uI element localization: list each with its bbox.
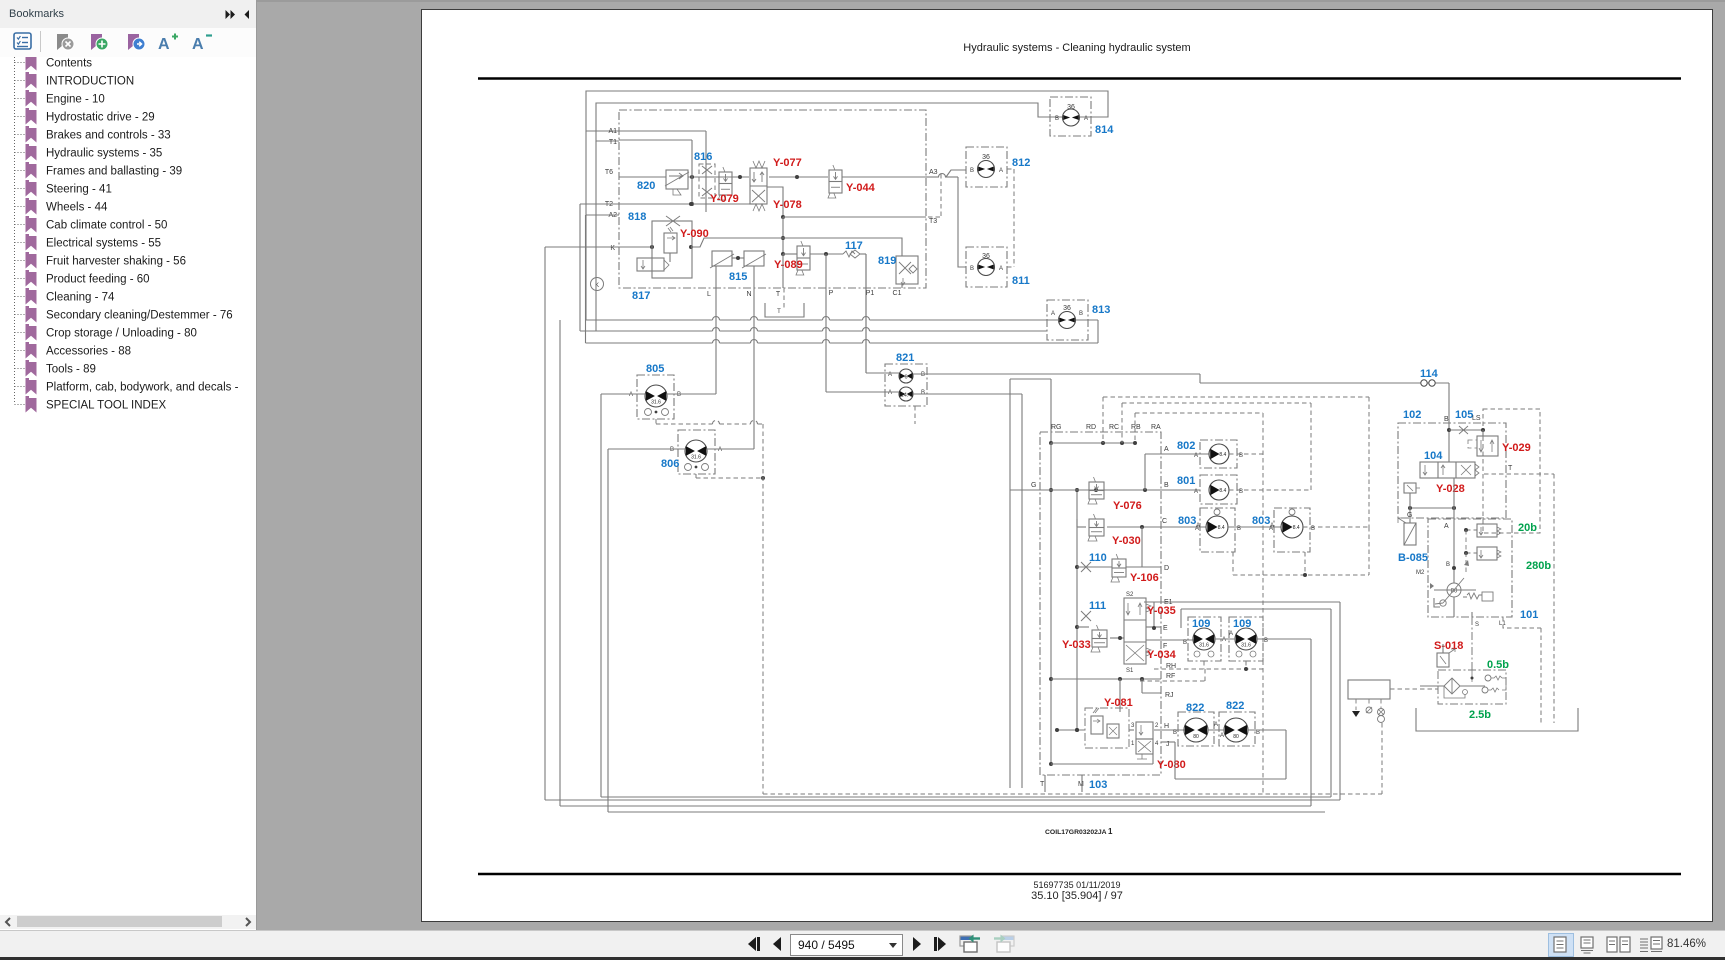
svg-text:Tools - 89: Tools - 89 xyxy=(46,364,96,376)
label 20b xyxy=(1518,522,1537,534)
svg-text:Engine - 10: Engine - 10 xyxy=(46,94,105,106)
svg-text:114: 114 xyxy=(1420,368,1439,380)
wire 820 drop to T2 row xyxy=(690,140,694,206)
page title xyxy=(963,42,1190,54)
svg-text:805: 805 xyxy=(646,363,664,375)
label Y-030 xyxy=(1112,535,1141,547)
svg-text:Cleaning - 74: Cleaning - 74 xyxy=(46,292,115,304)
wire D row xyxy=(1077,527,1161,567)
svg-text:Contents: Contents xyxy=(46,58,92,70)
svg-text:806: 806 xyxy=(661,458,679,470)
wire A1 to motor 814 A (top outer run) xyxy=(586,91,1108,131)
two-up continuous layout xyxy=(1638,936,1664,954)
valve Y-033 xyxy=(1091,625,1107,652)
svg-text:G: G xyxy=(1407,512,1412,519)
valve 818 block xyxy=(637,216,692,278)
restrictor LS feed xyxy=(1449,426,1485,434)
label 813 xyxy=(1092,304,1110,316)
port label T3 xyxy=(929,218,937,225)
label 803 second xyxy=(1252,515,1274,529)
drawing code label xyxy=(1045,827,1113,836)
pilot valve Y-028 small xyxy=(1404,483,1420,493)
svg-text:20b: 20b xyxy=(1518,522,1537,534)
label 805 xyxy=(646,363,664,375)
svg-text:A: A xyxy=(1220,733,1224,739)
pump 101 xyxy=(1430,560,1493,607)
svg-text:A: A xyxy=(999,168,1003,174)
svg-text:Frames and ballasting - 39: Frames and ballasting - 39 xyxy=(46,166,182,178)
svg-text:1: 1 xyxy=(1131,741,1135,747)
last page btn xyxy=(932,936,950,952)
port label A3 xyxy=(929,169,938,176)
wire S drop xyxy=(1454,597,1472,617)
svg-text:B: B xyxy=(1446,562,1450,568)
dashed 803 drains xyxy=(1233,527,1369,577)
pdf page xyxy=(421,9,1713,922)
svg-text:811: 811 xyxy=(1012,275,1030,287)
svg-text:102: 102 xyxy=(1403,409,1421,421)
label 104 xyxy=(1424,450,1443,462)
wire C1 drop xyxy=(901,284,903,288)
first page btn xyxy=(744,936,762,952)
manifold 102 outline xyxy=(1398,423,1506,518)
wire RJ row xyxy=(1051,677,1161,693)
svg-text:818: 818 xyxy=(628,211,646,223)
motor 821 tandem xyxy=(885,364,927,406)
wire 806 drain dashed xyxy=(696,474,765,480)
valve Y-106 xyxy=(1111,554,1126,582)
svg-text:M: M xyxy=(1078,781,1084,788)
wire A down to pump xyxy=(1416,525,1456,583)
svg-text:803: 803 xyxy=(1252,515,1270,527)
coupler 114 xyxy=(1421,380,1435,386)
wire 109 B return xyxy=(1257,639,1311,806)
svg-text:T3: T3 xyxy=(929,218,937,225)
svg-text:B: B xyxy=(1055,116,1059,122)
right enclosure left edge xyxy=(1010,379,1051,788)
wire 117 to P1 column xyxy=(860,254,866,373)
svg-text:Cab climate control - 50: Cab climate control - 50 xyxy=(46,220,167,232)
pressure valve 280b xyxy=(1464,547,1501,560)
wire 109 link xyxy=(1215,638,1235,640)
valve Y-089 xyxy=(796,241,810,275)
label Y-033 xyxy=(1062,639,1091,651)
svg-text:111: 111 xyxy=(1089,600,1106,612)
wire LS riser xyxy=(1482,430,1484,436)
svg-text:1: 1 xyxy=(1108,827,1113,836)
port labels 103 bottom xyxy=(1040,781,1084,788)
wire 821 bottom A xyxy=(826,391,899,393)
port label G xyxy=(1031,482,1036,489)
wire K feed xyxy=(545,247,619,800)
label 820 xyxy=(637,180,655,192)
port label B 102 xyxy=(1444,416,1449,423)
wire A3 down to 811 B xyxy=(958,177,966,267)
svg-text:36: 36 xyxy=(982,253,990,260)
motor 822 first xyxy=(1173,712,1218,746)
svg-text:T1: T1 xyxy=(609,139,617,146)
svg-text:A: A xyxy=(999,266,1003,272)
svg-text:RJ: RJ xyxy=(1165,692,1174,699)
wire 813 B return row xyxy=(586,320,1099,343)
wire 801 B dashed xyxy=(1229,489,1311,491)
svg-text:RB: RB xyxy=(1131,424,1141,431)
wire 806 B xyxy=(608,449,685,812)
label 117 xyxy=(845,240,863,252)
wire 806 A xyxy=(707,448,754,450)
svg-text:816: 816 xyxy=(694,151,712,163)
svg-text:B: B xyxy=(921,390,925,396)
valve Y-029 xyxy=(1468,436,1498,456)
svg-text:A: A xyxy=(158,36,170,51)
wire L1 dashed down xyxy=(1503,617,1541,723)
svg-text:S1: S1 xyxy=(1126,668,1134,674)
wire T column to tank xyxy=(783,254,784,308)
svg-text:Y-035: Y-035 xyxy=(1147,605,1176,617)
svg-text:INTRODUCTION: INTRODUCTION xyxy=(46,76,134,88)
svg-text:Secondary cleaning/Destemmer -: Secondary cleaning/Destemmer - 76 xyxy=(46,310,233,322)
wire T2 feed xyxy=(580,204,619,331)
svg-text:814: 814 xyxy=(1095,124,1114,136)
svg-text:A: A xyxy=(1214,722,1218,728)
svg-text:A: A xyxy=(192,36,204,51)
dashed pilot rail 101 xyxy=(1465,530,1467,575)
svg-text:Y-028: Y-028 xyxy=(1436,483,1465,495)
label 102 xyxy=(1403,409,1421,421)
wire A3 exit jog xyxy=(926,170,966,177)
port labels 103 right xyxy=(1162,446,1176,748)
goto bookmark icon (purple + blue) xyxy=(126,31,146,53)
options checklist icon xyxy=(13,32,33,51)
wire K return bottom xyxy=(545,602,1340,800)
svg-text:A: A xyxy=(1222,637,1226,643)
svg-text:Y-076: Y-076 xyxy=(1113,500,1142,512)
wire T6 row xyxy=(619,175,926,179)
wire T3 dashed riser xyxy=(928,174,941,217)
svg-text:COIL17GR03202JA: COIL17GR03202JA xyxy=(1045,829,1107,836)
continuous layout xyxy=(1580,936,1594,954)
wire F row xyxy=(1146,639,1194,641)
svg-text:819: 819 xyxy=(878,255,896,267)
svg-text:Y-033: Y-033 xyxy=(1062,639,1091,651)
wire 805 B xyxy=(667,393,716,395)
port labels S L1 xyxy=(1475,621,1506,628)
next page btn xyxy=(910,936,924,952)
wire G row xyxy=(1010,488,1200,492)
label 101 xyxy=(1520,609,1538,621)
svg-text:S2: S2 xyxy=(1126,592,1134,598)
svg-text:Electrical systems - 55: Electrical systems - 55 xyxy=(46,238,161,250)
wire Y-078 branch xyxy=(767,187,785,219)
motor 812 xyxy=(966,147,1007,187)
check valves 0.5b 2.5b xyxy=(1444,670,1506,698)
wire 803 link xyxy=(1228,526,1281,528)
svg-text:B: B xyxy=(921,372,925,378)
label 806 xyxy=(661,458,679,470)
svg-text:822: 822 xyxy=(1226,700,1244,712)
svg-text:801: 801 xyxy=(1177,475,1195,487)
port label LS xyxy=(1472,415,1481,422)
wire H feed row xyxy=(1055,728,1134,732)
label 114 xyxy=(1420,368,1439,380)
wire rail second xyxy=(1075,488,1079,732)
svg-text:T: T xyxy=(776,291,781,298)
wire drain trunk dashed xyxy=(762,424,764,794)
svg-text:B: B xyxy=(970,168,974,174)
svg-text:812: 812 xyxy=(1012,157,1030,169)
valve 104 directional xyxy=(1420,462,1479,478)
svg-text:Fruit harvester shaking - 56: Fruit harvester shaking - 56 xyxy=(46,256,186,268)
svg-text:103: 103 xyxy=(1089,779,1107,791)
svg-text:Y-077: Y-077 xyxy=(773,157,802,169)
svg-text:A: A xyxy=(1270,523,1274,529)
svg-text:51697735 01/11/2019: 51697735 01/11/2019 xyxy=(1034,880,1121,890)
svg-text:8.4: 8.4 xyxy=(1219,488,1226,494)
port labels 103 top xyxy=(1051,424,1161,431)
single page layout (selected) xyxy=(1548,933,1574,957)
A- icon xyxy=(192,33,214,51)
svg-text:Wheels - 44: Wheels - 44 xyxy=(46,202,108,214)
wire bottom rail 103 xyxy=(1051,742,1153,764)
port label G 102 xyxy=(1407,512,1412,519)
wire Y-078 down xyxy=(781,217,785,256)
wire 821 top B supply xyxy=(913,374,1449,419)
svg-text:C1: C1 xyxy=(893,290,902,297)
label 109 second xyxy=(1233,618,1251,630)
motor 109 second xyxy=(1229,617,1268,661)
svg-text:B: B xyxy=(970,266,974,272)
svg-text:36: 36 xyxy=(1067,104,1075,111)
svg-text:G: G xyxy=(1031,482,1036,489)
wire A1 return row to 813 A xyxy=(586,131,1059,320)
svg-text:B-085: B-085 xyxy=(1398,552,1428,564)
svg-text:Y-080: Y-080 xyxy=(1157,759,1186,771)
svg-text:Y-078: Y-078 xyxy=(773,199,802,211)
port labels manifold 817 bottom xyxy=(707,290,902,298)
svg-text:6: 6 xyxy=(904,375,907,381)
svg-text:105: 105 xyxy=(1455,409,1473,421)
svg-text:A: A xyxy=(1196,523,1200,529)
footer page reference xyxy=(1031,890,1123,902)
svg-text:A: A xyxy=(1164,446,1169,453)
svg-text:8.4: 8.4 xyxy=(1219,452,1226,458)
dashed riser RC xyxy=(1121,403,1123,443)
svg-text:T: T xyxy=(1508,465,1513,472)
label 2.5b xyxy=(1469,709,1491,721)
svg-text:Crop storage / Unloading - 80: Crop storage / Unloading - 80 xyxy=(46,328,197,340)
motor 803 first xyxy=(1195,508,1241,552)
label 801 xyxy=(1177,475,1195,487)
svg-text:104: 104 xyxy=(1424,450,1443,462)
svg-text:Hydrostatic drive - 29: Hydrostatic drive - 29 xyxy=(46,112,155,124)
label 821 xyxy=(896,352,914,364)
label Y-034 xyxy=(1147,649,1177,661)
svg-text:Y-029: Y-029 xyxy=(1502,442,1531,454)
label 109 first xyxy=(1192,618,1210,630)
svg-text:14.4: 14.4 xyxy=(901,393,912,399)
svg-text:N: N xyxy=(746,291,751,298)
wire 805 drain dashed xyxy=(656,419,763,424)
wire S dashdot down xyxy=(1471,617,1473,670)
svg-text:Brakes and controls - 33: Brakes and controls - 33 xyxy=(46,130,171,142)
svg-text:280b: 280b xyxy=(1526,560,1551,572)
label Y-106 xyxy=(1130,572,1159,584)
svg-text:0.5b: 0.5b xyxy=(1487,659,1509,671)
wire H row xyxy=(1154,729,1186,731)
top window edge strip xyxy=(0,0,1725,2)
motor 813 xyxy=(1047,300,1088,340)
delete bookmark icon (gray) xyxy=(55,31,75,53)
port labels manifold 817 left xyxy=(605,128,617,252)
wire T2 row inner xyxy=(619,202,754,206)
svg-text:817: 817 xyxy=(632,290,650,302)
dashed box 801 loop xyxy=(1122,403,1311,490)
wire T2 return bottom xyxy=(560,320,1311,806)
label Y-076 xyxy=(1113,500,1142,512)
manifold 817 outline xyxy=(619,110,926,288)
tank T symbol xyxy=(765,303,804,317)
valve group Y-081 xyxy=(1085,708,1129,748)
wire T dashed from 104 xyxy=(1484,474,1554,723)
wire rail main xyxy=(1049,443,1053,766)
label Y-090 xyxy=(680,228,709,240)
svg-text:S: S xyxy=(1475,622,1479,628)
svg-text:P1: P1 xyxy=(866,290,875,297)
valve 819 relief xyxy=(896,256,918,285)
solenoid B-085 xyxy=(1398,518,1416,545)
svg-text:B: B xyxy=(670,447,674,453)
next view btn (disabled) xyxy=(991,934,1015,955)
check valve 117 xyxy=(843,250,860,258)
label Y-078 xyxy=(773,199,802,211)
svg-text:T: T xyxy=(1040,781,1045,788)
svg-text:803: 803 xyxy=(1178,515,1196,527)
wire E ext row xyxy=(1181,609,1331,628)
wire supply to RG drop xyxy=(1049,379,1053,445)
svg-text:31.6: 31.6 xyxy=(651,399,661,405)
svg-text:Y-079: Y-079 xyxy=(710,193,739,205)
svg-text:T: T xyxy=(777,309,781,315)
svg-text:B: B xyxy=(677,392,681,398)
label 280b xyxy=(1526,560,1551,572)
svg-text:Product feeding - 60: Product feeding - 60 xyxy=(46,274,150,286)
label 814 xyxy=(1095,124,1114,136)
two-up layout xyxy=(1606,936,1632,953)
svg-text:802: 802 xyxy=(1177,440,1195,452)
wire T1 return row xyxy=(580,141,1047,331)
label 816 xyxy=(694,151,712,163)
label 0.5b xyxy=(1487,659,1509,671)
wire C row xyxy=(1077,519,1206,529)
svg-text:C: C xyxy=(1162,518,1167,525)
svg-text:822: 822 xyxy=(1186,702,1204,714)
svg-text:A: A xyxy=(1444,523,1449,530)
relief valve S-018 xyxy=(1437,644,1455,667)
svg-text:Steering - 41: Steering - 41 xyxy=(46,184,112,196)
label Y-029 xyxy=(1502,442,1531,454)
wire 821 bottom B return xyxy=(913,394,1022,788)
filter box S-018 xyxy=(1438,670,1506,704)
wire A2 feed xyxy=(586,215,620,343)
wire K to 818 block xyxy=(619,245,693,249)
label S-018 xyxy=(1434,640,1463,652)
svg-text:SPECIAL TOOL INDEX: SPECIAL TOOL INDEX xyxy=(46,400,166,412)
header collapse icons xyxy=(225,9,251,20)
label 103 xyxy=(1089,779,1107,791)
svg-text:109: 109 xyxy=(1192,618,1210,630)
junction box xyxy=(1348,680,1438,699)
wire Y-081 riser xyxy=(1119,679,1121,712)
svg-text:K: K xyxy=(610,245,615,252)
port label A 101 xyxy=(1444,523,1449,530)
header rule xyxy=(478,77,1681,80)
new bookmark icon (purple + green) xyxy=(89,31,109,53)
wire 812 A to 811 A dashed xyxy=(1007,169,1014,267)
motor 109 first xyxy=(1183,617,1226,661)
svg-text:T6: T6 xyxy=(605,169,613,176)
wire N column xyxy=(753,288,755,449)
valve 820 flow control xyxy=(665,170,689,195)
wire G row 102 xyxy=(1408,478,1456,525)
dashed box 105 xyxy=(1483,409,1540,533)
wire A riser and row xyxy=(1145,454,1209,490)
previous view btn xyxy=(959,934,983,955)
svg-text:Y-106: Y-106 xyxy=(1130,572,1159,584)
restrictor 111 xyxy=(1081,611,1091,621)
svg-text:P: P xyxy=(829,290,834,297)
svg-text:Platform, cab, bodywork, and d: Platform, cab, bodywork, and decals - xyxy=(46,382,239,394)
svg-text:3: 3 xyxy=(1131,723,1135,729)
footer document number xyxy=(1034,880,1121,890)
restrictor 110 xyxy=(1081,562,1091,572)
label Y-079 xyxy=(710,193,739,205)
svg-text:RF: RF xyxy=(1166,673,1175,680)
flow controls 815 xyxy=(710,251,766,288)
svg-text:H: H xyxy=(1164,723,1169,730)
label Y-089 xyxy=(774,259,803,271)
svg-text:Y-044: Y-044 xyxy=(846,182,876,194)
svg-text:A: A xyxy=(718,447,722,453)
label Y-035 xyxy=(1147,605,1176,617)
svg-text:35.10 [35.904] / 97: 35.10 [35.904] / 97 xyxy=(1031,890,1123,902)
svg-text:Y-089: Y-089 xyxy=(774,259,803,271)
pressure valve 20b xyxy=(1464,524,1501,537)
svg-text:815: 815 xyxy=(729,271,747,283)
manifold 103 outline xyxy=(1040,432,1161,775)
svg-text:A: A xyxy=(888,390,892,396)
svg-text:A: A xyxy=(1194,453,1198,459)
dashed 109 drains xyxy=(1140,661,1263,681)
label 811 xyxy=(1012,275,1030,287)
svg-text:Y-030: Y-030 xyxy=(1112,535,1141,547)
svg-text:B: B xyxy=(1173,730,1177,736)
svg-text:L: L xyxy=(707,291,711,298)
svg-text:Y-034: Y-034 xyxy=(1147,649,1177,661)
svg-text:820: 820 xyxy=(637,180,655,192)
node K circle xyxy=(591,278,604,291)
svg-text:E: E xyxy=(1163,625,1168,632)
svg-text:D: D xyxy=(1164,565,1169,572)
label 817 xyxy=(632,290,650,302)
svg-text:Accessories - 88: Accessories - 88 xyxy=(46,346,131,358)
svg-text:A: A xyxy=(1084,116,1088,122)
wire A1 inner extension xyxy=(619,130,706,132)
svg-text:31.6: 31.6 xyxy=(1199,642,1209,648)
svg-text:Hydraulic systems - Cleaning h: Hydraulic systems - Cleaning hydraulic s… xyxy=(963,42,1190,54)
filter element xyxy=(1420,678,1485,694)
svg-text:4: 4 xyxy=(1155,741,1159,747)
valve Y-030 xyxy=(1088,514,1104,541)
